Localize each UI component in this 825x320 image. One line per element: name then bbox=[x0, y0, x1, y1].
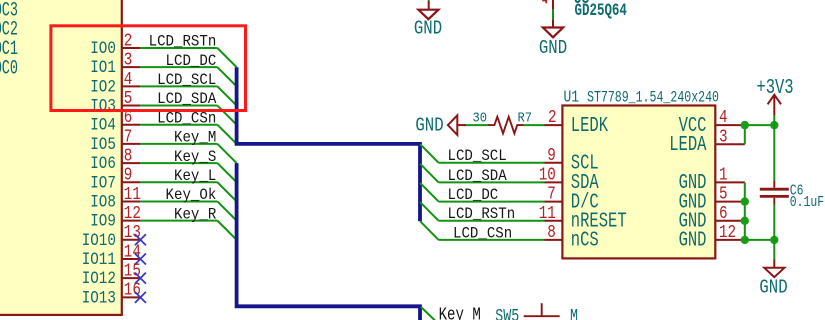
wire LEDA up to VCC rail bbox=[744, 125, 746, 144]
junction at GND pin12 bbox=[741, 236, 749, 244]
component U1 body ST7789 display bbox=[562, 106, 715, 259]
wire GND rail to C6 column bbox=[745, 239, 775, 241]
bus KEY (vertical + bottom horizontal) bbox=[237, 163, 420, 320]
bus entry for LCD_DC (right) bbox=[420, 183, 438, 202]
no-connect X on pin 15 bbox=[135, 273, 146, 284]
svg-text:10: 10 bbox=[539, 164, 556, 185]
svg-text:GND: GND bbox=[414, 18, 442, 40]
svg-text:IO3: IO3 bbox=[90, 95, 116, 116]
svg-text:IO9: IO9 bbox=[90, 210, 116, 231]
bus entry for Key_S bbox=[217, 163, 236, 182]
ground symbol top-left bbox=[418, 10, 438, 20]
svg-text:0.1uF: 0.1uF bbox=[790, 195, 824, 212]
wire GND rail down to ground symbol bbox=[773, 240, 775, 260]
pin 7 (IO5) stub bbox=[121, 143, 140, 145]
bus entry for LCD_SCL bbox=[217, 86, 236, 105]
pin 4 (IO2) stub bbox=[121, 85, 140, 87]
junction at GND pin5 bbox=[741, 197, 749, 205]
ground symbol top-right stem bbox=[552, 19, 554, 27]
wire LCD_DC from pin 3 bbox=[140, 66, 217, 68]
U1 pin 7 stub bbox=[545, 201, 563, 203]
wire LCD_SCL from pin 4 bbox=[140, 85, 217, 87]
wire LCD_SCL to U1 bbox=[439, 162, 545, 164]
bus entry for LCD_DC bbox=[217, 67, 236, 86]
component U2 body (MCU module, partially off-canvas) bbox=[0, 0, 122, 315]
wire to ground (top-right) bbox=[552, 9, 554, 19]
svg-text:GND: GND bbox=[759, 277, 787, 299]
svg-text:LCD_CSn: LCD_CSn bbox=[157, 111, 216, 128]
svg-text:IO1: IO1 bbox=[90, 57, 116, 78]
wire LCD_RSTn to U1 bbox=[439, 220, 545, 222]
wire LCD_SDA from pin 5 bbox=[140, 105, 217, 107]
svg-text:SW5: SW5 bbox=[495, 306, 519, 320]
svg-text:Key_M: Key_M bbox=[439, 303, 481, 320]
wire LCD_CSn from pin 6 bbox=[140, 124, 217, 126]
U1 pin 11 stub bbox=[545, 220, 563, 222]
pin 13 (IO10) stub bbox=[121, 239, 140, 241]
wire GND-label to R7 bbox=[466, 124, 487, 126]
bus entry for Key_R bbox=[217, 221, 236, 240]
svg-text:IO12: IO12 bbox=[82, 268, 116, 289]
pin 5 (IO3) stub bbox=[121, 105, 140, 107]
wire +3V3 down to C6 bbox=[773, 125, 775, 181]
svg-text:9: 9 bbox=[547, 144, 556, 165]
svg-text:5: 5 bbox=[719, 183, 728, 204]
U1 pin 2 stub (LEDK) bbox=[545, 124, 563, 126]
svg-text:LCD_RSTn: LCD_RSTn bbox=[149, 34, 217, 51]
svg-text:+3V3: +3V3 bbox=[756, 76, 793, 100]
svg-text:2: 2 bbox=[548, 106, 557, 127]
svg-text:OC0: OC0 bbox=[0, 58, 18, 80]
selection rectangle (rubber band) bbox=[51, 26, 246, 111]
svg-text:LEDK: LEDK bbox=[571, 114, 608, 138]
svg-text:30: 30 bbox=[473, 110, 488, 126]
U1 pin 5 stub (right) bbox=[715, 201, 745, 203]
svg-text:7: 7 bbox=[547, 183, 556, 204]
wire Key_S from pin 8 bbox=[140, 162, 217, 164]
bus entry for Key_M (bottom) bbox=[421, 307, 436, 320]
junction at GND pin6 bbox=[741, 217, 749, 225]
U1 pin 10 stub bbox=[545, 181, 563, 183]
svg-text:Key_Ok: Key_Ok bbox=[166, 188, 217, 205]
pin 9 (IO7) stub bbox=[121, 181, 140, 183]
wire LCD_CSn to U1 bbox=[439, 239, 545, 241]
wire Key_Ok from pin 11 bbox=[140, 200, 217, 202]
pin 8 (IO6) stub bbox=[121, 162, 140, 164]
svg-text:12: 12 bbox=[719, 221, 736, 242]
svg-text:GND: GND bbox=[539, 37, 567, 59]
svg-text:LCD_SDA: LCD_SDA bbox=[448, 168, 507, 185]
wire C6 to GND rail bbox=[773, 205, 775, 240]
svg-text:nCS: nCS bbox=[571, 229, 599, 253]
svg-text:Key_M: Key_M bbox=[174, 130, 216, 147]
svg-text:Key_R: Key_R bbox=[174, 207, 216, 224]
svg-text:IO7: IO7 bbox=[90, 172, 116, 193]
U3 pin 4 remnant (cut off at top) bbox=[542, 1, 546, 4]
svg-text:LCD_CSn: LCD_CSn bbox=[453, 226, 512, 243]
wire GND pins vertical chain bbox=[744, 182, 746, 240]
svg-text:IO10: IO10 bbox=[82, 229, 116, 250]
wire VCC to +3V3 bbox=[745, 124, 775, 126]
svg-text:IO6: IO6 bbox=[90, 153, 116, 174]
U1 pin 8 stub bbox=[545, 239, 563, 241]
svg-text:IO0: IO0 bbox=[90, 37, 116, 58]
svg-text:3: 3 bbox=[719, 126, 728, 147]
hierarchical label GND (arrow shape) bbox=[448, 115, 457, 135]
pin stub from U3 above bbox=[552, 0, 554, 9]
wire Key_R from pin 12 bbox=[140, 220, 217, 222]
svg-text:GND: GND bbox=[679, 229, 707, 253]
svg-text:IO4: IO4 bbox=[90, 114, 116, 135]
no-connect X on pin 14 bbox=[135, 253, 146, 264]
svg-text:LCD_DC: LCD_DC bbox=[448, 187, 499, 204]
svg-text:M: M bbox=[570, 306, 578, 320]
pin 3 (IO1) stub bbox=[121, 66, 140, 68]
svg-text:8: 8 bbox=[547, 221, 556, 242]
bus entry for LCD_SDA bbox=[217, 106, 236, 125]
pin 11 (IO8) stub bbox=[121, 200, 140, 202]
junction at C6 column / GND rail bbox=[770, 236, 778, 244]
U1 pin 6 stub (right) bbox=[715, 220, 745, 222]
wire Key_L from pin 9 bbox=[140, 181, 217, 183]
U1 pin 1 stub (right) bbox=[715, 181, 745, 183]
svg-text:LCD_DC: LCD_DC bbox=[166, 53, 217, 70]
ground symbol below C6 bbox=[773, 260, 775, 268]
svg-text:R7: R7 bbox=[517, 110, 532, 126]
pin 12 (IO9) stub bbox=[121, 220, 140, 222]
junction at +3V3 stem bbox=[770, 121, 778, 129]
svg-text:IO2: IO2 bbox=[90, 76, 116, 97]
svg-text:LEDA: LEDA bbox=[669, 133, 706, 157]
bus LCD (vertical segment) bbox=[237, 67, 420, 221]
bus entry for Key_Ok bbox=[217, 201, 236, 220]
capacitor C6 bbox=[773, 181, 775, 188]
svg-text:LCD_RSTn: LCD_RSTn bbox=[448, 207, 516, 224]
svg-text:Key_L: Key_L bbox=[174, 168, 216, 185]
svg-text:1: 1 bbox=[719, 164, 728, 185]
pin 16 (IO13) stub bbox=[121, 296, 140, 298]
wire LCD_SDA to U1 bbox=[439, 181, 545, 183]
pin stem from above (left GND) bbox=[428, 1, 430, 10]
bus entry for Key_M bbox=[217, 144, 236, 163]
pin 6 (IO4) stub bbox=[121, 124, 140, 126]
bus entry for LCD_SCL (right) bbox=[420, 144, 438, 163]
svg-text:ST7789_1.54_240x240: ST7789_1.54_240x240 bbox=[587, 89, 719, 107]
pin 14 (IO11) stub bbox=[121, 258, 140, 260]
svg-text:Key_S: Key_S bbox=[174, 149, 216, 166]
svg-text:GND: GND bbox=[415, 115, 443, 137]
svg-text:IO11: IO11 bbox=[82, 248, 116, 269]
svg-text:U1: U1 bbox=[564, 89, 580, 107]
bus entry for LCD_RSTn bbox=[217, 48, 236, 67]
wire R7 to U1 pin 2 bbox=[524, 124, 545, 126]
wire Key_M from pin 7 bbox=[140, 143, 217, 145]
svg-text:IO5: IO5 bbox=[90, 133, 116, 154]
ground symbol top-right bbox=[543, 28, 563, 38]
no-connect X on pin 16 bbox=[135, 292, 146, 303]
svg-text:16: 16 bbox=[124, 279, 141, 300]
svg-text:GD25Q64: GD25Q64 bbox=[575, 0, 627, 21]
wire stub from GND label bbox=[457, 124, 466, 126]
svg-text:IO13: IO13 bbox=[82, 287, 116, 308]
svg-text:LCD_SCL: LCD_SCL bbox=[157, 72, 216, 89]
junction at VCC/LEDA bbox=[741, 121, 749, 129]
pin 2 (IO0) stub bbox=[121, 47, 140, 49]
bus entry for LCD_RSTn (right) bbox=[420, 202, 438, 221]
U1 pin 3 stub (right) bbox=[715, 143, 745, 145]
U1 pin 12 stub (right) bbox=[715, 239, 745, 241]
svg-text:4: 4 bbox=[719, 106, 728, 127]
switch SW5 symbol (partially cut) bbox=[524, 315, 560, 317]
svg-text:IO8: IO8 bbox=[90, 191, 116, 212]
resistor R7 bbox=[488, 117, 524, 134]
svg-text:LCD_SDA: LCD_SDA bbox=[157, 92, 216, 109]
wire LCD_DC to U1 bbox=[439, 201, 545, 203]
svg-text:LCD_SCL: LCD_SCL bbox=[448, 149, 507, 166]
pin 15 (IO12) stub bbox=[121, 277, 140, 279]
no-connect X on pin 13 bbox=[135, 234, 146, 245]
bus entry for Key_L bbox=[217, 182, 236, 201]
wire LCD_RSTn from pin 2 bbox=[140, 47, 217, 49]
power symbol +3V3 bbox=[773, 115, 775, 125]
U1 pin 9 stub bbox=[545, 162, 563, 164]
bus entry for LCD_SDA (right) bbox=[420, 164, 438, 183]
U1 pin 4 stub (right) bbox=[715, 124, 745, 126]
wire remnant at top (left GND) bbox=[428, 0, 430, 1]
bus entry for LCD_CSn bbox=[217, 125, 236, 144]
bus entry for LCD_CSn (right) bbox=[420, 221, 438, 240]
